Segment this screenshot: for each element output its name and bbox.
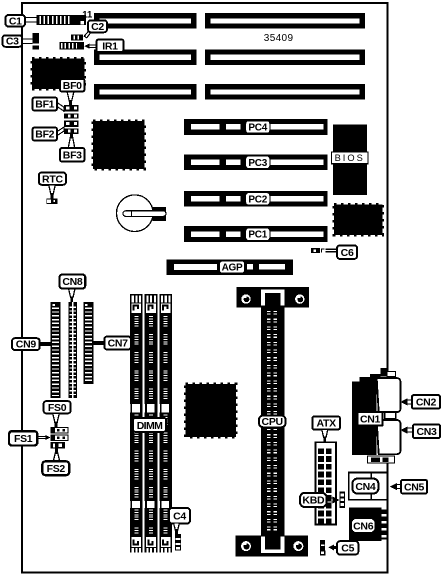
callout label CN2	[412, 395, 440, 409]
CPU slot column	[261, 306, 284, 536]
pointer C2	[84, 32, 91, 38]
svg-text:PC4: PC4	[248, 123, 267, 134]
callout label FS2	[42, 461, 69, 475]
BIOS chip	[333, 125, 367, 196]
connector C1 (striped header)	[37, 15, 87, 25]
svg-text:PC2: PC2	[248, 194, 267, 205]
svg-text:PC3: PC3	[248, 158, 267, 169]
svg-text:IR1: IR1	[102, 40, 118, 52]
svg-text:FS2: FS2	[47, 463, 66, 475]
pointer CN8	[69, 289, 76, 303]
keyboard connector KBD component	[340, 491, 346, 508]
CN1 bottom pins	[368, 456, 395, 463]
callout label C2	[88, 20, 107, 33]
svg-text:CPU: CPU	[262, 416, 283, 428]
chip U4 (QFP mid board)	[186, 384, 237, 437]
svg-text:FS0: FS0	[48, 402, 67, 414]
svg-text:CN3: CN3	[416, 426, 437, 438]
CPU label	[259, 416, 286, 429]
svg-text:BIOS: BIOS	[335, 153, 365, 163]
pointer to C6	[326, 249, 338, 253]
connector CN4	[349, 472, 388, 499]
callout label ATX	[312, 417, 340, 430]
jumper row BF (2)	[64, 113, 79, 118]
pointer CN9	[40, 342, 51, 346]
header CN9 (column)	[51, 302, 61, 398]
svg-text:BF0: BF0	[63, 80, 82, 92]
pointer KBD	[327, 496, 340, 503]
pointer BF1	[57, 103, 64, 112]
svg-text:C4: C4	[173, 510, 186, 522]
PCI slot PC1	[184, 226, 328, 242]
pointer ATX	[322, 430, 328, 443]
callout label C6	[337, 245, 357, 259]
svg-text:RTC: RTC	[42, 173, 63, 185]
pointer C4	[174, 523, 180, 534]
jumper RTC	[46, 199, 57, 205]
connector CN3 (DB9 side)	[377, 420, 401, 454]
callout label C5	[337, 541, 358, 554]
PCI slot PC3	[184, 154, 328, 170]
callout label FS0	[44, 401, 71, 414]
svg-text:11: 11	[82, 10, 93, 21]
pointer FS0	[53, 413, 60, 426]
DIMM slot 2	[145, 294, 158, 553]
pointer CN3	[401, 427, 415, 434]
callout label RTC	[39, 173, 66, 186]
DIMM slot 1	[130, 294, 143, 553]
svg-text:C3: C3	[6, 36, 19, 48]
svg-text:CN1: CN1	[360, 414, 381, 426]
callout label CN5	[401, 480, 427, 494]
header CN7 (column)	[84, 302, 94, 384]
chip U2 (QFP)	[93, 121, 145, 169]
svg-text:BF3: BF3	[63, 149, 82, 161]
callout label BF2	[33, 128, 58, 141]
pointer FS1	[37, 435, 50, 440]
svg-text:DIMM: DIMM	[137, 420, 163, 432]
callout label CN9	[12, 338, 40, 351]
svg-text:CN5: CN5	[404, 481, 425, 493]
ISA slot row 2 left segment	[94, 50, 197, 66]
pointer IR1	[84, 44, 96, 49]
svg-text:C1: C1	[9, 15, 22, 27]
tab between CN2/CN3	[385, 412, 396, 419]
callout label BF1	[33, 98, 58, 111]
connector CN6	[349, 508, 384, 541]
capacitor C4	[175, 534, 181, 550]
connector IR1 (striped header)	[60, 42, 85, 50]
jumper row BF (1)	[64, 105, 79, 112]
battery BT1	[117, 195, 167, 232]
callout label C3	[3, 35, 23, 47]
capacitor C3	[33, 33, 40, 50]
AGP slot	[167, 260, 294, 275]
callout label C4	[169, 508, 190, 524]
pointer FS2	[53, 448, 60, 461]
svg-text:PC1: PC1	[248, 230, 267, 241]
capacitor/jumper C2	[71, 35, 83, 41]
CPU slot bottom bracket	[235, 536, 308, 557]
svg-text:FS1: FS1	[14, 433, 33, 445]
BIOS label	[332, 152, 369, 164]
connector block CN1	[352, 377, 377, 455]
pointer C1	[25, 17, 37, 23]
pointer BF3	[68, 134, 75, 148]
jumper C6	[311, 248, 325, 253]
svg-text:CN7: CN7	[108, 338, 129, 350]
callout label C1	[6, 15, 26, 27]
svg-text:BF1: BF1	[35, 99, 54, 111]
ATX power connector	[315, 442, 336, 524]
chip U3 (QFP near BIOS)	[334, 205, 383, 236]
svg-text:CN9: CN9	[16, 339, 37, 351]
jumper row FS (2)	[50, 435, 68, 441]
callout label BF0	[60, 79, 85, 92]
jumper row FS (1)	[50, 427, 68, 434]
chip U1 (QFP top-left)	[32, 59, 85, 90]
jumper C5	[320, 540, 325, 555]
callout label CN1	[358, 412, 383, 426]
svg-text:C2: C2	[91, 21, 104, 33]
jumper row BF (3)	[64, 120, 79, 127]
DIMM slot 3	[159, 294, 172, 553]
callout label IR1	[97, 40, 124, 53]
svg-text:AGP: AGP	[222, 263, 243, 274]
svg-text:BF2: BF2	[35, 129, 54, 141]
svg-text:C5: C5	[341, 542, 354, 554]
ISA slot row 1 left segment	[94, 13, 197, 29]
pointer CN2	[401, 398, 414, 405]
svg-text:C6: C6	[341, 247, 354, 259]
callout label CN7	[104, 337, 131, 350]
pointer CN5	[390, 483, 402, 490]
connector CN2 (DB9 side)	[377, 378, 401, 412]
PCI slot PC4	[184, 119, 328, 135]
pointer BF0	[67, 91, 74, 104]
svg-text:ATX: ATX	[317, 418, 337, 430]
callout label BF3	[60, 148, 85, 162]
pointer C5	[328, 544, 337, 550]
svg-text:35409: 35409	[264, 33, 294, 44]
header CN8 (column)	[68, 302, 77, 398]
pointer BF2	[57, 127, 64, 136]
ISA slot row 3 left segment	[94, 84, 197, 100]
pointer CN7	[93, 341, 104, 345]
pointer C3	[22, 38, 33, 44]
callout label FS1	[9, 431, 37, 445]
svg-text:CN2: CN2	[416, 397, 437, 409]
callout label CN8	[60, 275, 86, 289]
svg-text:CN6: CN6	[353, 521, 374, 533]
ISA slot row 1 right segment	[205, 13, 365, 29]
callout label CN3	[413, 425, 440, 439]
jumper row FS (3)	[50, 442, 65, 448]
jumper row BF (4)	[64, 129, 79, 134]
CPU slot top bracket	[237, 287, 309, 308]
ISA slot row 2 right segment	[205, 50, 365, 66]
CN1 top pins	[370, 368, 396, 379]
PCI slot PC2	[184, 191, 328, 207]
pointer RTC	[49, 185, 56, 199]
svg-text:KBD: KBD	[302, 495, 325, 507]
ISA slot row 3 right segment	[205, 84, 365, 100]
svg-text:CN4: CN4	[355, 481, 376, 493]
DIMM label	[133, 418, 166, 432]
svg-text:CN8: CN8	[62, 276, 83, 288]
callout label KBD	[300, 493, 327, 507]
